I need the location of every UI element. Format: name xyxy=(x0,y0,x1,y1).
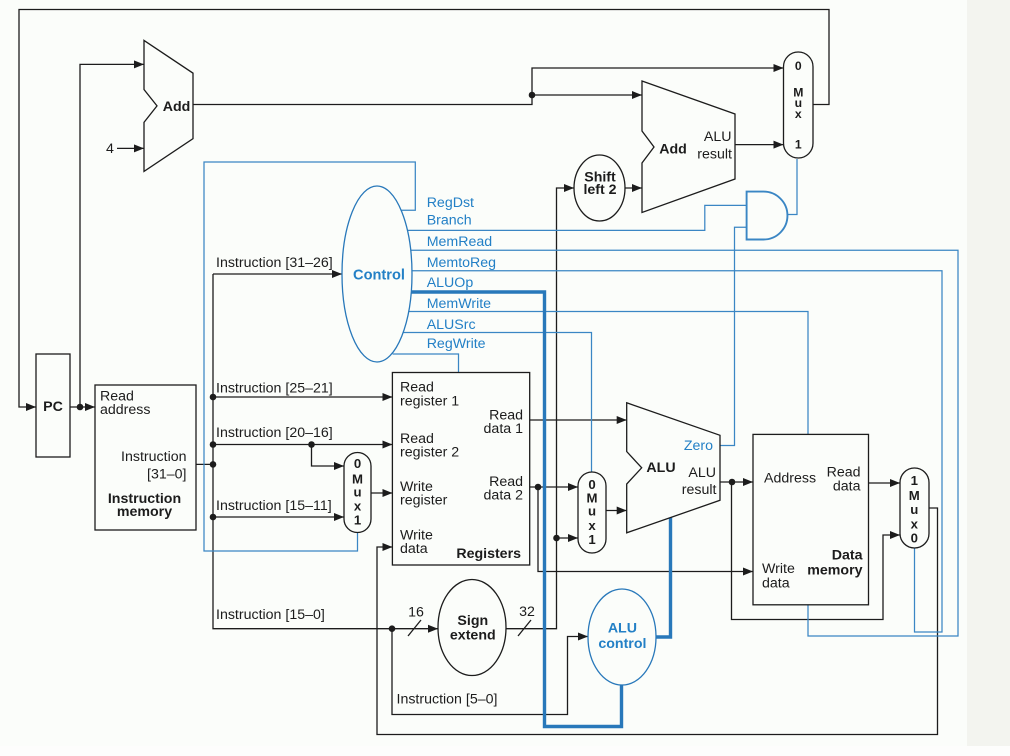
svg-text:32: 32 xyxy=(519,604,535,620)
svg-text:Add: Add xyxy=(163,99,191,115)
svg-text:RegWrite: RegWrite xyxy=(427,336,486,352)
svg-text:memory: memory xyxy=(807,563,862,579)
svg-text:PC: PC xyxy=(43,399,63,415)
svg-text:ALUOp: ALUOp xyxy=(427,275,474,291)
svg-text:result: result xyxy=(697,147,732,163)
svg-text:register 1: register 1 xyxy=(400,394,459,410)
svg-text:MemRead: MemRead xyxy=(427,234,492,250)
svg-text:x: x xyxy=(354,499,362,514)
svg-text:u: u xyxy=(588,504,596,519)
svg-text:left 2: left 2 xyxy=(583,182,616,198)
svg-text:Registers: Registers xyxy=(456,546,521,562)
svg-text:M: M xyxy=(909,488,920,503)
svg-text:Branch: Branch xyxy=(427,213,472,229)
svg-text:u: u xyxy=(353,485,361,500)
svg-text:Instruction [15–11]: Instruction [15–11] xyxy=(216,498,332,514)
svg-text:[31–0]: [31–0] xyxy=(147,467,186,483)
svg-text:register 2: register 2 xyxy=(400,445,459,461)
svg-text:0: 0 xyxy=(354,456,361,471)
svg-text:Zero: Zero xyxy=(684,438,713,454)
svg-text:1: 1 xyxy=(354,513,361,528)
svg-text:1: 1 xyxy=(588,532,595,547)
svg-text:1: 1 xyxy=(795,138,802,152)
svg-text:MemtoReg: MemtoReg xyxy=(427,255,496,271)
svg-text:4: 4 xyxy=(106,141,114,157)
svg-text:Instruction [25–21]: Instruction [25–21] xyxy=(216,381,333,397)
svg-text:Instruction [31–26]: Instruction [31–26] xyxy=(216,255,333,271)
svg-text:Control: Control xyxy=(353,268,405,284)
svg-text:0: 0 xyxy=(795,59,802,73)
svg-text:address: address xyxy=(100,402,150,418)
svg-text:data: data xyxy=(762,576,790,592)
svg-text:16: 16 xyxy=(408,605,424,621)
svg-text:data 2: data 2 xyxy=(484,488,524,504)
svg-text:data 1: data 1 xyxy=(484,421,524,437)
svg-text:x: x xyxy=(911,517,919,532)
svg-text:Instruction: Instruction xyxy=(121,449,186,465)
svg-text:data: data xyxy=(833,479,861,495)
svg-text:Instruction [20–16]: Instruction [20–16] xyxy=(216,425,333,441)
svg-text:ALUSrc: ALUSrc xyxy=(427,317,476,333)
svg-text:ALU: ALU xyxy=(704,129,732,145)
svg-text:x: x xyxy=(588,518,596,533)
svg-text:0: 0 xyxy=(911,531,918,546)
svg-text:result: result xyxy=(682,482,717,498)
svg-text:RegDst: RegDst xyxy=(427,195,474,211)
svg-text:ALU: ALU xyxy=(608,621,637,637)
svg-text:register: register xyxy=(400,493,448,509)
svg-text:x: x xyxy=(795,107,802,121)
svg-text:memory: memory xyxy=(117,504,172,520)
svg-text:1: 1 xyxy=(911,473,918,488)
svg-text:Data: Data xyxy=(832,548,863,564)
svg-text:Address: Address xyxy=(764,471,816,487)
svg-text:Instruction [15–0]: Instruction [15–0] xyxy=(216,607,325,623)
svg-text:control: control xyxy=(598,636,646,652)
svg-text:Add: Add xyxy=(659,142,687,158)
svg-text:data: data xyxy=(400,541,428,557)
svg-text:extend: extend xyxy=(450,628,496,644)
svg-text:Instruction [5–0]: Instruction [5–0] xyxy=(397,692,498,708)
svg-text:u: u xyxy=(910,502,918,517)
svg-text:ALU: ALU xyxy=(646,460,675,476)
svg-text:ALU: ALU xyxy=(688,465,716,481)
svg-text:MemWrite: MemWrite xyxy=(427,296,491,312)
